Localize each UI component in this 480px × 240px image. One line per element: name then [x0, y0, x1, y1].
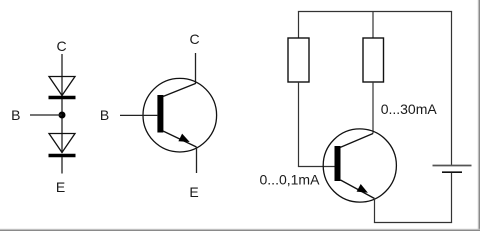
- transistor Q1 emitter stroke: [341, 180, 375, 199]
- svg-text:C: C: [56, 38, 66, 54]
- wire: battery branch from rail to positive plate: [451, 12, 453, 166]
- transistor Q (middle NPN symbol) body circle: [143, 78, 217, 152]
- transistor Q emitter stroke: [163, 131, 197, 147]
- transistor Q emitter arrowhead: [178, 134, 189, 142]
- battery BT1 positive plate (long): [433, 165, 472, 167]
- wire: emitter lead of diode pair: [61, 157, 63, 174]
- wire: left branch from rail to R1: [298, 12, 300, 39]
- transistor Q1 body circle: [323, 129, 396, 202]
- svg-text:B: B: [11, 107, 20, 123]
- svg-text:E: E: [56, 179, 65, 195]
- transistor Q1 emitter arrowhead: [357, 184, 368, 193]
- resistor R1 (base resistor): [288, 38, 309, 82]
- wire: base lead of diode pair: [30, 114, 62, 116]
- transistor Q1 base bar: [335, 146, 341, 181]
- wire: battery negative down to bottom rail: [451, 173, 453, 223]
- svg-text:B: B: [100, 107, 109, 123]
- wire: R2 down to collector of Q1: [372, 82, 374, 134]
- wire: collector lead of diode pair: [61, 54, 63, 96]
- wire: right branch from rail to R2: [372, 12, 374, 39]
- wire: collector lead (middle transistor): [195, 53, 197, 84]
- wire: emitter lead (middle transistor): [196, 147, 198, 173]
- wire: horizontal into base of Q1: [298, 166, 335, 168]
- diode D2 (base-emitter diode): [49, 134, 76, 156]
- node B junction dot: [59, 112, 66, 119]
- svg-text:E: E: [189, 184, 198, 200]
- wire: top supply rail (right circuit): [298, 11, 452, 13]
- wire: base lead (middle transistor): [120, 114, 157, 116]
- transistor Q collector stroke: [163, 84, 196, 97]
- diode D1 (base-collector diode): [49, 77, 76, 98]
- svg-text:0...30mA: 0...30mA: [381, 101, 438, 117]
- svg-text:C: C: [189, 31, 199, 47]
- wire: emitter of Q1 down to bottom rail: [374, 199, 376, 223]
- battery BT1 negative plate (short): [442, 171, 462, 173]
- svg-text:0...0,1mA: 0...0,1mA: [260, 171, 321, 187]
- wire: between diodes through node B: [61, 99, 63, 153]
- wire: bottom return rail: [374, 222, 452, 224]
- transistor Q1 collector stroke: [340, 134, 373, 148]
- resistor R2 (collector resistor): [363, 38, 384, 82]
- transistor Q base bar: [157, 95, 163, 133]
- wire: R1 down to base corner: [298, 82, 300, 167]
